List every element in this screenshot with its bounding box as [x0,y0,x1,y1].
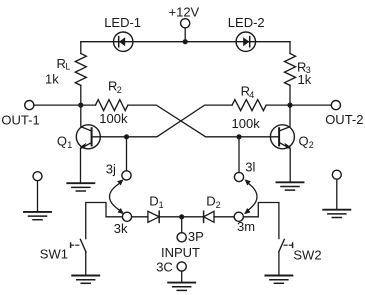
svg-text:1: 1 [159,200,164,210]
transistor Q2 [270,105,294,182]
ground below SW2 [265,276,292,284]
node ground terminal right [332,170,341,179]
resistor RL [75,54,86,86]
svg-text:3j: 3j [106,162,116,177]
wire RL to node [80,85,82,105]
svg-text:+12V: +12V [169,5,200,20]
node +12V terminal [181,19,190,28]
wire 3P drop [181,217,183,233]
wire Q1 base to cross diagonal up [92,105,233,137]
wire R4 right lead [266,104,290,106]
wire 3C to ground [181,271,183,282]
LED-1 [114,32,133,51]
node ground terminal left [33,172,42,181]
svg-text:100k: 100k [232,116,261,131]
junction dot OUT-2 node [287,103,292,108]
wire OUT-1 [34,104,81,106]
node 3l terminal [234,172,243,181]
node OUT-2 terminal [331,101,340,110]
svg-text:LED-2: LED-2 [228,15,265,30]
svg-text:3m: 3m [237,219,255,234]
arrow arc 3l-3m [244,179,257,214]
node 3k terminal [122,212,131,221]
wire right terminal drop [336,179,338,209]
svg-text:3P: 3P [188,229,204,244]
wire left terminal drop [37,181,39,212]
resistor R2 [96,100,128,111]
svg-text:SW2: SW2 [293,247,321,262]
junction dot +12V rail [183,39,188,44]
svg-text:2: 2 [309,140,314,150]
wire top power rail [81,41,290,43]
resistor R4 [232,100,266,111]
svg-text:D: D [206,194,215,209]
ground below Q1 [67,183,94,191]
svg-text:3l: 3l [245,159,255,174]
svg-text:3C: 3C [156,259,173,274]
svg-text:L: L [65,61,70,71]
svg-text:INPUT: INPUT [161,245,200,260]
node 3m terminal [234,212,243,221]
junction dot Q2 base / 3l [236,134,241,139]
svg-text:4: 4 [249,90,254,100]
LED-2 [236,32,255,51]
wire R2 left lead [81,104,96,106]
wire SW1 to ground [85,252,87,275]
wire 3k to SW1 [86,203,123,239]
svg-text:LED-1: LED-1 [104,15,141,30]
wire 3l branch [238,137,240,173]
wire D1 to 3P node [159,216,182,218]
svg-text:1k: 1k [45,71,59,86]
switch SW2 [279,239,293,252]
svg-text:100k: 100k [99,111,128,126]
ground right terminal [323,210,350,218]
junction dot Q1 base / 3j [124,134,129,139]
svg-text:3k: 3k [114,221,128,236]
diode D1 [148,211,159,222]
wire left rail top [80,42,82,54]
wire +12V drop [184,28,186,42]
wire 3k to D1 [132,216,148,218]
svg-text:Q: Q [299,134,309,149]
wire SW2 to ground [278,252,280,275]
ground left terminal [24,212,51,220]
resistor R3 [285,54,296,86]
svg-text:SW1: SW1 [40,247,68,262]
ground below Q2 [277,182,304,190]
svg-text:Q: Q [57,134,67,149]
wire node to D2 [182,216,204,218]
node 3C terminal [177,262,186,271]
junction dot OUT-1 node [78,103,83,108]
junction dot 3P node [179,214,184,219]
transistor Q1 [76,105,100,183]
node OUT-1 terminal [25,101,34,110]
svg-text:1: 1 [67,140,72,150]
wire right rail top [289,42,291,54]
svg-text:D: D [149,194,158,209]
svg-text:1k: 1k [298,72,312,87]
svg-text:2: 2 [117,85,122,95]
wire 3m to SW2 [243,203,279,239]
wire OUT-2 [290,104,331,106]
diode D2 [204,211,214,222]
ground below SW1 [72,276,99,284]
wire R3 to node [289,85,291,105]
svg-text:2: 2 [216,200,221,210]
switch SW1 [71,239,86,252]
wire R2 to cross diagonal down [128,105,279,137]
node 3P terminal [177,233,186,242]
node 3j terminal [122,171,131,180]
wire D2 to 3m [214,216,234,218]
svg-text:OUT-1: OUT-1 [1,112,39,127]
wire 3j branch [126,137,128,171]
ground below 3C [168,283,195,291]
svg-text:OUT-2: OUT-2 [325,112,363,127]
arrow arc 3j-3k [109,179,124,214]
